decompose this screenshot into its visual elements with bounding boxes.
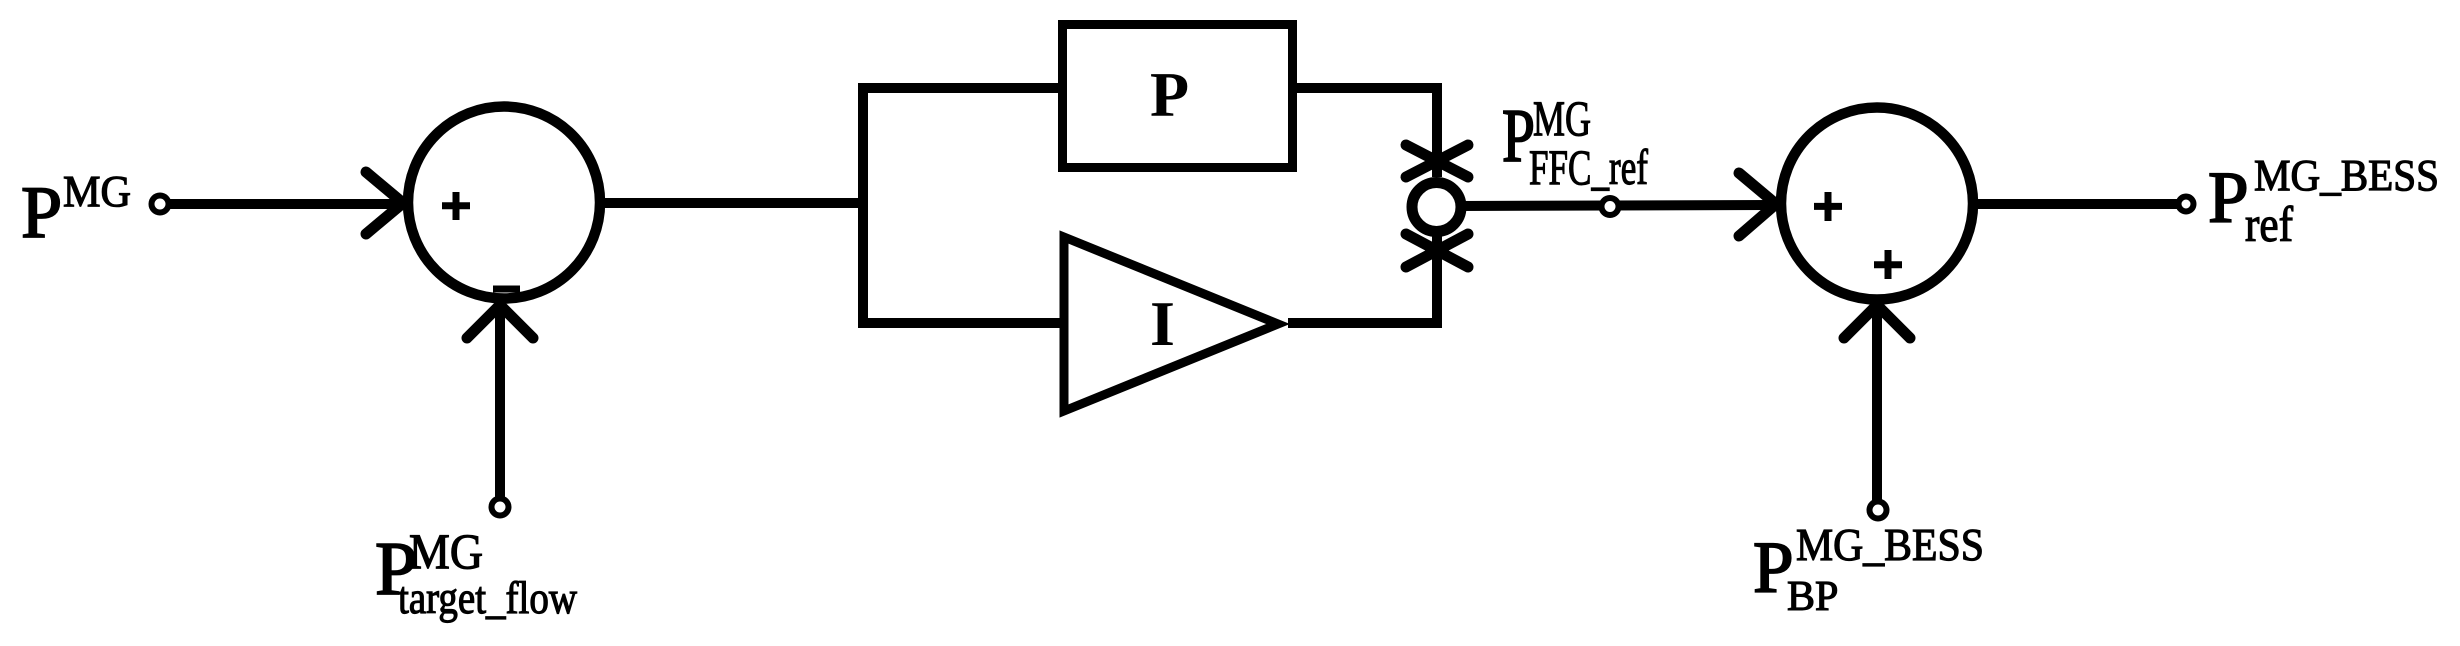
svg-text:MG: MG xyxy=(1533,90,1591,146)
svg-text:ref: ref xyxy=(2245,196,2293,252)
svg-text:target_flow: target_flow xyxy=(398,572,578,623)
svg-text:P: P xyxy=(1150,59,1189,130)
svg-text:I: I xyxy=(1150,288,1175,359)
svg-text:P: P xyxy=(2208,157,2249,238)
svg-text:P: P xyxy=(21,172,62,254)
svg-text:FFC_ref: FFC_ref xyxy=(1529,139,1648,195)
svg-text:MG: MG xyxy=(409,523,483,579)
svg-text:MG_BESS: MG_BESS xyxy=(2254,151,2439,200)
svg-text:MG_BESS: MG_BESS xyxy=(1796,519,1984,570)
svg-text:MG: MG xyxy=(63,167,131,216)
svg-text:BP: BP xyxy=(1787,574,1838,620)
